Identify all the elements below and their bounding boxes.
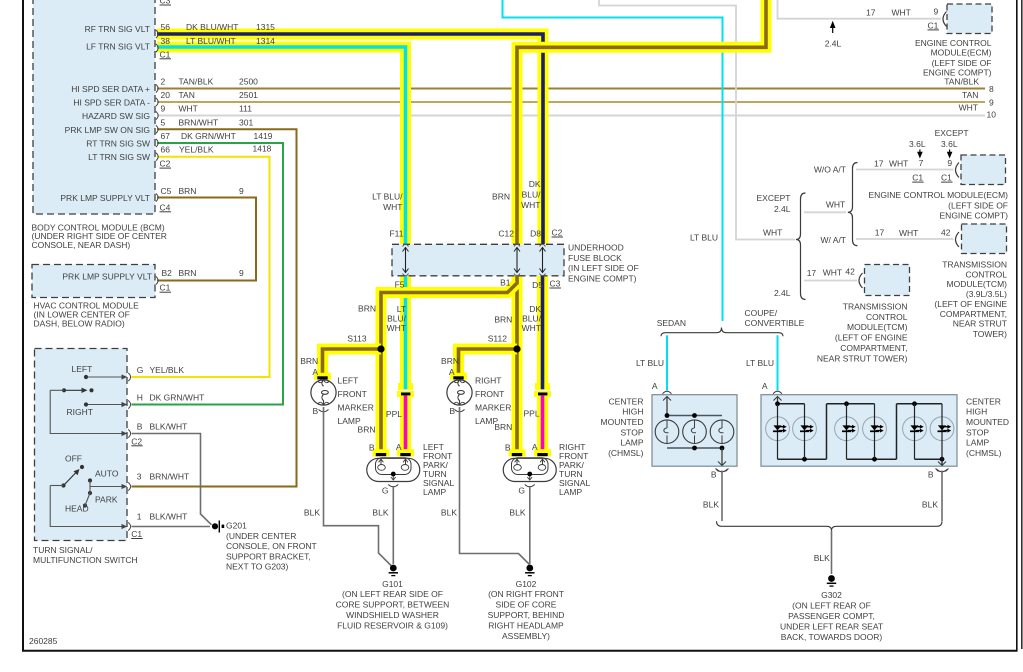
svg-text:WHT: WHT [826, 200, 845, 210]
svg-text:HAZARD SW SIG: HAZARD SW SIG [82, 111, 150, 121]
ground G302 [827, 575, 836, 586]
fuse path C12-B1 [514, 248, 520, 273]
svg-text:67: 67 [161, 131, 171, 141]
svg-text:FUSE BLOCK: FUSE BLOCK [568, 253, 622, 263]
svg-text:BRN: BRN [494, 422, 512, 432]
terminal marker lamp A [314, 373, 331, 380]
splice labels [347, 333, 507, 343]
wire DK BLU/WHT 1315 BCM pin 56 to fuse block D8 [157, 34, 543, 244]
svg-text:CONSOLE, NEAR DASH): CONSOLE, NEAR DASH) [32, 240, 131, 250]
right front park/turn signal lamp [503, 458, 556, 487]
svg-text:7: 7 [919, 158, 924, 168]
svg-text:1419: 1419 [254, 131, 273, 141]
svg-text:1: 1 [137, 511, 142, 521]
LED lamp element [903, 404, 927, 459]
LED lamp element [835, 404, 859, 459]
svg-text:A: A [396, 442, 402, 452]
svg-text:ASSEMBLY): ASSEMBLY) [502, 631, 550, 641]
svg-text:PARK: PARK [95, 495, 118, 505]
svg-text:B: B [137, 421, 143, 431]
svg-text:COUPE/: COUPE/ [745, 308, 778, 318]
wire BLK right park/turn lamp G to G102 [529, 487, 531, 564]
svg-text:20: 20 [161, 90, 171, 100]
splice S112 [513, 345, 520, 352]
svg-text:BACK, TOWARDS DOOR): BACK, TOWARDS DOOR) [781, 632, 883, 642]
connector arc at TCM 2.4L [859, 273, 863, 288]
wire WHT except-2.4L branch to W/O-W/ A/T brace [804, 211, 846, 213]
left front marker lamp [311, 380, 336, 412]
svg-text:LT BLU: LT BLU [636, 358, 664, 368]
wire TAN/BLK 2500 [157, 88, 985, 90]
wire BRN 9 BCM C5 to HVAC B2 [157, 198, 256, 281]
LED lamp element [766, 404, 790, 459]
park/turn lamp labels [358, 408, 591, 497]
svg-text:COMPARTMENT,: COMPARTMENT, [840, 343, 907, 353]
svg-text:3.6L: 3.6L [941, 139, 958, 149]
LED lamp element [793, 404, 817, 459]
svg-text:(IN LEFT SIDE OF: (IN LEFT SIDE OF [568, 263, 639, 273]
svg-text:LAMP: LAMP [620, 438, 643, 448]
svg-text:C2: C2 [131, 436, 142, 446]
wire PPL connector to left park/turn lamp A [400, 396, 411, 451]
svg-text:G: G [382, 486, 389, 496]
svg-text:C1: C1 [131, 529, 142, 539]
turn signal / multifunction switch box [35, 349, 128, 541]
wire labels below fuse block [358, 304, 542, 334]
svg-text:DK: DK [529, 179, 541, 189]
wire BLK/WHT switch pin 1 to G201 [132, 526, 211, 528]
wire BLK brace to G302 [831, 531, 833, 575]
svg-text:PASSENGER COMPT,: PASSENGER COMPT, [788, 611, 875, 621]
ECM connector box 2.4L [947, 4, 992, 34]
left front park/turn signal lamp [367, 458, 420, 487]
wire BRN/WHT 301 BCM to switch pin 3 [132, 129, 297, 486]
wire BRN fuse B1 to splice S112 and right park/turn lamp B [512, 276, 523, 451]
svg-text:3.6L: 3.6L [909, 139, 926, 149]
wire BLK/WHT switch pin B to G201 [132, 434, 212, 525]
svg-text:F11: F11 [389, 229, 403, 239]
svg-text:(ON LEFT REAR OF: (ON LEFT REAR OF [792, 601, 871, 611]
svg-text:17: 17 [874, 158, 884, 168]
center high mounted stop lamp CHMSL coupe/convertible [761, 391, 957, 471]
svg-text:SUPPORT BRACKET,: SUPPORT BRACKET, [226, 551, 311, 561]
wire WHT 111 [157, 115, 985, 117]
svg-text:BLK: BLK [509, 507, 525, 517]
svg-text:BRN/WHT: BRN/WHT [179, 117, 219, 127]
svg-text:C2: C2 [552, 228, 563, 238]
svg-text:AUTO: AUTO [95, 469, 119, 479]
svg-text:OFF: OFF [65, 454, 82, 464]
terminal park/turn lamp [373, 449, 390, 456]
HVAC connector pin arc [156, 276, 158, 284]
TCM connector box 2.4L [865, 265, 910, 296]
svg-text:EXCEPT: EXCEPT [935, 128, 969, 138]
W/ A/T TCM labels [690, 164, 1007, 339]
svg-text:MARKER: MARKER [475, 403, 511, 413]
svg-text:WHT: WHT [892, 7, 911, 17]
svg-text:LT BLU/: LT BLU/ [372, 192, 403, 202]
wire LT BLU/WHT 1314 BCM pin 38 to fuse block F11 [157, 47, 406, 244]
svg-text:260285: 260285 [29, 636, 58, 646]
BCM connector pin arcs [156, 30, 158, 202]
arrow 2.4L pointing to WHT wire [830, 21, 836, 33]
svg-text:RT TRN SIG SW: RT TRN SIG SW [86, 138, 150, 148]
svg-text:FRONT: FRONT [475, 389, 504, 399]
svg-text:BRN/WHT: BRN/WHT [150, 471, 190, 481]
svg-text:PPL: PPL [524, 408, 540, 418]
svg-text:WHT: WHT [387, 323, 406, 333]
svg-text:DK GRN/WHT: DK GRN/WHT [181, 131, 236, 141]
svg-text:9: 9 [989, 98, 994, 108]
svg-text:WHT: WHT [823, 267, 842, 277]
wire BRN branch B1 to splice S113 and left park/turn lamp B [381, 283, 517, 451]
wire WHT from top edge to ECM 2.4L pin 9 [778, 0, 942, 19]
wire WHT W/ A/T branch to TCM pin 42 [856, 238, 954, 240]
svg-text:C1: C1 [928, 20, 939, 30]
svg-text:C5: C5 [161, 186, 172, 196]
underhood fuse block [392, 244, 564, 275]
svg-text:LF TRN SIG VLT: LF TRN SIG VLT [86, 41, 150, 51]
wire DK BLU/WHT fuse D5 to inline connector [537, 276, 548, 389]
svg-text:BLK: BLK [441, 507, 457, 517]
wire WHT from top edge to EXCEPT-2.4L brace [599, 0, 795, 240]
svg-text:B: B [505, 442, 511, 452]
svg-text:YEL/BLK: YEL/BLK [150, 365, 185, 375]
svg-text:ENGINE CONTROL: ENGINE CONTROL [915, 38, 992, 48]
svg-text:TRANSMISSION: TRANSMISSION [942, 259, 1007, 269]
svg-text:W/O A/T: W/O A/T [814, 164, 846, 174]
svg-text:TAN/BLK: TAN/BLK [944, 76, 979, 86]
svg-text:COMPARTMENT,: COMPARTMENT, [940, 309, 1007, 319]
G302 labels [780, 590, 883, 642]
svg-text:UNDERHOOD: UNDERHOOD [568, 242, 624, 252]
svg-text:PRK LMP SUPPLY VLT: PRK LMP SUPPLY VLT [60, 193, 150, 203]
arrow 3.6L to pin 7 [917, 150, 923, 159]
svg-text:BLU/: BLU/ [522, 190, 542, 200]
wire YEL/BLK 1418 BCM to switch pin G [132, 157, 270, 377]
svg-text:WHT: WHT [959, 102, 978, 112]
svg-text:MODULE(ECM): MODULE(ECM) [931, 48, 992, 58]
svg-text:SIDE OF CORE: SIDE OF CORE [496, 600, 557, 610]
marker lamp labels [300, 356, 511, 426]
svg-text:FRONT: FRONT [338, 389, 367, 399]
svg-text:BRN: BRN [358, 425, 376, 435]
connector arc at TCM 3.9/3.5 [956, 232, 960, 247]
fuse path F11-F5 [403, 248, 409, 273]
svg-text:BRN: BRN [492, 192, 510, 202]
splice S113 [377, 345, 384, 352]
svg-text:PRK LMP SW ON SIG: PRK LMP SW ON SIG [65, 125, 150, 135]
svg-text:CENTER: CENTER [609, 396, 644, 406]
right edge wire numbers [944, 76, 996, 119]
svg-text:NEXT TO G203): NEXT TO G203) [226, 562, 289, 572]
svg-text:HI SPD SER DATA -: HI SPD SER DATA - [73, 97, 150, 107]
svg-text:MODULE(TCM): MODULE(TCM) [947, 279, 1008, 289]
center high mounted stop lamp CHMSL sedan [652, 391, 737, 471]
svg-text:TOWER): TOWER) [973, 329, 1007, 339]
svg-text:LAMP: LAMP [966, 438, 989, 448]
svg-text:MODULE(TCM): MODULE(TCM) [847, 322, 908, 332]
svg-text:B: B [928, 470, 934, 480]
wire BRN from top edge to fuse block C12 [517, 0, 766, 244]
ECM 2.4L labels [825, 7, 992, 78]
svg-text:56: 56 [161, 22, 171, 32]
svg-text:S113: S113 [347, 333, 366, 343]
svg-text:2500: 2500 [239, 77, 258, 87]
svg-text:TRANSMISSION: TRANSMISSION [843, 302, 908, 312]
arrow EXCEPT 3.6L to pin 9 [947, 150, 953, 159]
svg-text:B: B [449, 406, 455, 416]
svg-text:2: 2 [161, 77, 166, 87]
svg-text:2.4L: 2.4L [774, 204, 791, 214]
svg-text:F5: F5 [395, 280, 405, 290]
svg-text:8: 8 [989, 84, 994, 94]
svg-text:BLK: BLK [922, 500, 938, 510]
fuse path D8-D5 [540, 248, 546, 273]
svg-text:9: 9 [161, 104, 166, 114]
svg-text:C1: C1 [912, 173, 923, 183]
wire LT BLU sedan branch to left CHMSL A [666, 335, 668, 390]
svg-text:WINDSHIELD WASHER: WINDSHIELD WASHER [346, 610, 439, 620]
svg-text:111: 111 [239, 104, 252, 114]
turn signal switch contacts [50, 375, 121, 434]
svg-text:RIGHT: RIGHT [67, 407, 93, 417]
W/O A/T ECM labels [869, 128, 1009, 220]
svg-text:17: 17 [866, 7, 876, 17]
svg-text:42: 42 [845, 267, 855, 277]
svg-text:9: 9 [947, 158, 952, 168]
svg-text:C1: C1 [160, 49, 171, 59]
svg-text:WHT: WHT [763, 228, 782, 238]
wire LT BLU coupe branch to right CHMSL A [777, 335, 779, 390]
wire TAN 2501 [157, 101, 985, 103]
terminal park/turn lamp [509, 449, 526, 456]
svg-text:1314: 1314 [256, 36, 275, 46]
svg-text:A: A [652, 381, 658, 391]
svg-text:HEAD: HEAD [65, 504, 89, 514]
svg-text:BLK/WHT: BLK/WHT [150, 511, 188, 521]
svg-text:DK GRN/WHT: DK GRN/WHT [150, 392, 205, 402]
svg-text:C4: C4 [160, 202, 171, 212]
svg-text:MARKER: MARKER [338, 403, 374, 413]
svg-text:(LEFT SIDE OF: (LEFT SIDE OF [932, 58, 992, 68]
svg-text:LAMP: LAMP [423, 487, 446, 497]
fuse block terminal hooks [403, 244, 546, 276]
svg-text:WHT: WHT [899, 228, 918, 238]
svg-text:TAN: TAN [962, 90, 978, 100]
svg-text:(ON RIGHT FRONT: (ON RIGHT FRONT [488, 589, 564, 599]
wire WHT 2.4L branch to TCM pin 42 [804, 280, 857, 282]
2.4L TCM labels [774, 267, 908, 364]
svg-text:BRN: BRN [358, 304, 376, 314]
connector arc at ECM 2.4L [943, 12, 947, 27]
wire BLK left marker lamp B to G101 [324, 407, 392, 566]
svg-text:A: A [312, 367, 318, 377]
svg-text:(ON LEFT REAR SIDE OF: (ON LEFT REAR SIDE OF [342, 589, 443, 599]
svg-text:C3: C3 [550, 279, 561, 289]
switch connector pin arcs [122, 373, 131, 531]
svg-text:SUPPORT, BEHIND: SUPPORT, BEHIND [488, 610, 565, 620]
svg-text:STOP: STOP [621, 427, 644, 437]
wire LT BLU from top edge to sedan/coupe brace [503, 0, 723, 321]
svg-text:NEAR STRUT: NEAR STRUT [953, 319, 1007, 329]
svg-text:G: G [518, 486, 525, 496]
ground G101 [389, 565, 398, 576]
svg-text:BRN: BRN [179, 186, 197, 196]
wire labels above fuse block [372, 179, 541, 212]
svg-text:42: 42 [941, 227, 951, 237]
svg-text:BLK: BLK [814, 553, 830, 563]
svg-text:BLK: BLK [372, 507, 388, 517]
svg-text:NEAR STRUT TOWER): NEAR STRUT TOWER) [817, 353, 908, 363]
svg-text:FLUID RESERVOIR & G109): FLUID RESERVOIR & G109) [337, 621, 448, 631]
wire DK GRN/WHT 1419 BCM to switch pin H [132, 143, 284, 405]
svg-text:301: 301 [239, 117, 253, 127]
svg-text:LAMP: LAMP [559, 487, 582, 497]
svg-text:17: 17 [875, 227, 885, 237]
svg-text:ENGINE COMPT): ENGINE COMPT) [940, 210, 1009, 220]
svg-text:CONTROL: CONTROL [965, 270, 1007, 280]
HVAC labels [34, 268, 245, 328]
svg-text:38: 38 [161, 36, 171, 46]
svg-text:WHT: WHT [179, 104, 198, 114]
wire BLK right marker lamp B to G102 [460, 407, 530, 565]
svg-text:10: 10 [987, 109, 997, 119]
svg-text:B: B [313, 406, 319, 416]
svg-text:C1: C1 [160, 283, 171, 293]
svg-text:TAN: TAN [179, 90, 195, 100]
svg-text:PRK LMP SUPPLY VLT: PRK LMP SUPPLY VLT [62, 272, 152, 282]
svg-text:2.4L: 2.4L [774, 288, 791, 298]
inline connector DK BLU/WHT to PPL (right) [534, 383, 551, 397]
ECM connector box (except 2.4L) [961, 155, 1006, 185]
svg-text:H: H [137, 392, 143, 402]
svg-text:17: 17 [807, 268, 817, 278]
svg-text:LT BLU: LT BLU [690, 232, 718, 242]
svg-text:MULTIFUNCTION SWITCH: MULTIFUNCTION SWITCH [33, 555, 138, 565]
svg-text:W/ A/T: W/ A/T [821, 235, 847, 245]
svg-text:9: 9 [239, 186, 244, 196]
svg-text:2501: 2501 [239, 90, 258, 100]
svg-text:EXCEPT: EXCEPT [756, 193, 790, 203]
svg-text:RIGHT: RIGHT [475, 376, 501, 386]
svg-text:WHT: WHT [383, 202, 402, 212]
svg-text:DK BLU/WHT: DK BLU/WHT [186, 22, 238, 32]
ground G102 [525, 565, 534, 576]
svg-text:BRN: BRN [494, 314, 512, 324]
wire BLK left CHMSL B to brace [721, 471, 723, 522]
svg-text:BLK/WHT: BLK/WHT [150, 421, 188, 431]
svg-text:LEFT: LEFT [338, 376, 359, 386]
wire BRN splice S113 to left front marker lamp A [323, 349, 382, 376]
svg-text:DASH, BELOW RADIO): DASH, BELOW RADIO) [34, 319, 125, 329]
svg-text:A: A [449, 367, 455, 377]
svg-text:D8: D8 [530, 229, 541, 239]
svg-text:HI SPD SER DATA +: HI SPD SER DATA + [71, 84, 150, 94]
brace sedan/coupe split [661, 328, 783, 337]
body control module (BCM) box [33, 0, 155, 214]
svg-text:LT BLU/WHT: LT BLU/WHT [186, 36, 236, 46]
brace BLK merge to G302 [717, 521, 943, 530]
wire BLK right CHMSL B to brace [941, 471, 943, 522]
svg-text:TURN SIGNAL/: TURN SIGNAL/ [33, 545, 93, 555]
right front marker lamp [447, 380, 472, 412]
svg-text:RF TRN SIG VLT: RF TRN SIG VLT [85, 24, 150, 34]
svg-text:HIGH: HIGH [622, 407, 643, 417]
svg-text:WHT: WHT [522, 323, 541, 333]
svg-text:BLK: BLK [703, 500, 719, 510]
svg-text:D5: D5 [532, 280, 543, 290]
svg-text:HIGH: HIGH [966, 407, 987, 417]
svg-text:PPL: PPL [386, 409, 402, 419]
turn signal switch labels [33, 364, 204, 565]
svg-text:C2: C2 [160, 159, 171, 169]
svg-text:BRN: BRN [179, 268, 197, 278]
terminal park/turn lamp [534, 449, 551, 456]
ground G201 [212, 521, 224, 533]
svg-text:B: B [711, 470, 717, 480]
svg-text:9: 9 [239, 268, 244, 278]
svg-text:1418: 1418 [253, 144, 272, 154]
svg-text:G: G [137, 365, 144, 375]
svg-text:LT BLU: LT BLU [746, 358, 774, 368]
svg-text:LEFT: LEFT [72, 364, 93, 374]
wire PPL connector to right park/turn lamp A [537, 396, 548, 451]
svg-text:CONSOLE, ON FRONT: CONSOLE, ON FRONT [226, 541, 317, 551]
svg-text:3: 3 [137, 471, 142, 481]
svg-text:DK: DK [529, 304, 541, 314]
svg-text:G302: G302 [821, 590, 842, 600]
svg-text:G102: G102 [516, 579, 537, 589]
svg-text:B: B [369, 442, 375, 452]
wire WHT W/O A/T branch to ECM pins 7/9 [856, 169, 954, 171]
svg-text:UNDER LEFT REAR SEAT: UNDER LEFT REAR SEAT [780, 622, 883, 632]
wire BRN splice S112 to right front marker lamp A [459, 349, 518, 376]
svg-text:1315: 1315 [256, 22, 275, 32]
terminal park/turn lamp [397, 449, 414, 456]
svg-text:S112: S112 [488, 333, 507, 343]
svg-text:ENGINE COMPT): ENGINE COMPT) [568, 274, 637, 284]
svg-text:A: A [762, 381, 768, 391]
svg-text:G101: G101 [382, 579, 403, 589]
svg-text:LT TRN SIG SW: LT TRN SIG SW [88, 152, 150, 162]
fuse block labels [389, 228, 638, 291]
svg-text:BRN: BRN [300, 356, 318, 366]
svg-text:C1: C1 [941, 173, 952, 183]
BLK wire labels lamps [304, 507, 526, 517]
sedan coupe labels [636, 308, 938, 563]
svg-text:B2: B2 [162, 268, 173, 278]
svg-text:WHT: WHT [521, 200, 540, 210]
headlamp switch contacts [50, 465, 121, 527]
G101 labels [336, 579, 450, 631]
svg-text:G201: G201 [226, 521, 247, 531]
svg-text:CORE SUPPORT, BETWEEN: CORE SUPPORT, BETWEEN [336, 600, 450, 610]
svg-text:(LEFT SIDE OF: (LEFT SIDE OF [948, 200, 1008, 210]
svg-text:TAN/BLK: TAN/BLK [179, 77, 214, 87]
svg-text:66: 66 [161, 145, 171, 155]
svg-text:MOUNTED: MOUNTED [966, 417, 1009, 427]
svg-text:SEDAN: SEDAN [657, 318, 686, 328]
TCM connector box 3.9L/3.5L [962, 224, 1007, 254]
wire BLK left park/turn lamp G to G101 [392, 487, 394, 564]
svg-text:B1: B1 [500, 278, 511, 288]
LED lamp element [930, 404, 954, 459]
svg-text:ENGINE CONTROL MODULE(ECM): ENGINE CONTROL MODULE(ECM) [869, 190, 1009, 200]
svg-text:9: 9 [934, 7, 939, 17]
svg-text:STOP: STOP [966, 427, 989, 437]
terminal marker lamp A [450, 373, 467, 380]
